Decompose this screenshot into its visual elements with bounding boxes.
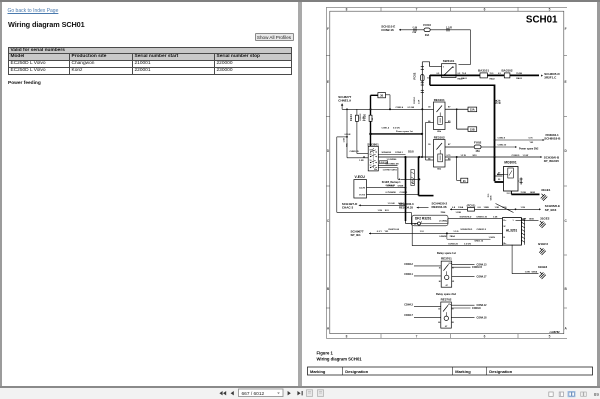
view single page icon bbox=[549, 392, 553, 396]
svg-text:30: 30 bbox=[380, 94, 384, 98]
svg-text:CON4.15: CON4.15 bbox=[472, 266, 483, 269]
wire CON2.9 arrow FD3904.1 bbox=[493, 133, 561, 144]
caption Wiring diagram SCH01 bbox=[316, 356, 362, 361]
svg-text:RE3102: RE3102 bbox=[433, 136, 444, 140]
svg-text:GN08: GN08 bbox=[397, 185, 403, 187]
wire to SW3801 pin30 bbox=[347, 158, 368, 162]
zone row letters left bbox=[326, 27, 330, 331]
off-sheet reference SCH49/7-D CHAC-3 bbox=[341, 202, 357, 210]
svg-text:D: D bbox=[564, 149, 567, 153]
FC02 column connector ticks bbox=[420, 67, 423, 93]
window left border bbox=[0, 2, 2, 386]
svg-text:CON4.17: CON4.17 bbox=[476, 275, 487, 278]
svg-text:15B: 15B bbox=[469, 127, 474, 131]
toolbar previous page button bbox=[231, 391, 234, 395]
svg-text:0.5B/W: 0.5B/W bbox=[439, 236, 447, 238]
ground 3/1GF3 bbox=[537, 242, 547, 255]
svg-text:B+: B+ bbox=[503, 243, 507, 245]
RE3701 right wires CON4.13 CON4.15 CON4.17 bbox=[451, 263, 486, 278]
arrow SCH65 backup bbox=[381, 178, 420, 187]
arrow SP_IE1 bbox=[369, 232, 371, 234]
RE3702 right wires bbox=[451, 304, 487, 319]
svg-text:C.28: C.28 bbox=[412, 27, 417, 29]
svg-text:Power spare 1st: Power spare 1st bbox=[396, 130, 413, 133]
cable labels bbox=[461, 73, 522, 80]
plot stamp cs98782 bbox=[549, 330, 560, 334]
svg-text:SCH9678-D: SCH9678-D bbox=[459, 216, 471, 218]
splitter bar bbox=[298, 2, 302, 386]
arrow stub SCH6277 bbox=[340, 103, 342, 109]
fuse FC03 bbox=[423, 23, 431, 37]
wire FC01 row bbox=[450, 206, 468, 209]
svg-text:30A: 30A bbox=[424, 34, 429, 37]
svg-text:CHW31.5: CHW31.5 bbox=[476, 229, 486, 231]
svg-text:CON5.1: CON5.1 bbox=[399, 192, 408, 194]
DF2 lower wire bbox=[412, 225, 502, 245]
svg-text:1.5Y/W Y-W01: 1.5Y/W Y-W01 bbox=[382, 170, 397, 172]
off-sheet reference SCH4030-2 RE2004.36 bbox=[431, 201, 447, 209]
svg-text:86: 86 bbox=[438, 281, 440, 283]
caption Figure 1 bbox=[316, 351, 333, 356]
30 box right feed wire bbox=[385, 95, 391, 111]
svg-text:S01: S01 bbox=[384, 210, 389, 212]
arrow CHAC-3 bbox=[358, 204, 360, 206]
svg-text:B: B bbox=[503, 237, 505, 239]
svg-text:0.75GN/W: 0.75GN/W bbox=[385, 192, 396, 194]
branch wire to S01 row bbox=[336, 134, 350, 213]
pane bottom divider bbox=[0, 386, 600, 388]
svg-text:CHAC-3: CHAC-3 bbox=[341, 206, 353, 210]
svg-text:CON4.7: CON4.7 bbox=[404, 314, 413, 317]
wire labels 70.5 GE06 bbox=[488, 194, 493, 201]
svg-text:1.5R: 1.5R bbox=[418, 99, 420, 104]
battery inter labels bbox=[489, 73, 501, 80]
svg-text:CON4.3: CON4.3 bbox=[404, 303, 413, 306]
svg-text:RE2004.36: RE2004.36 bbox=[431, 205, 446, 209]
svg-text:667 / 6012: 667 / 6012 bbox=[242, 391, 265, 397]
svg-text:D1/8: D1/8 bbox=[408, 150, 414, 154]
svg-text:W01: W01 bbox=[472, 155, 477, 157]
V-ECU lower wire bbox=[352, 197, 354, 199]
wire RE3101 87 to fuse 15A bbox=[445, 108, 468, 110]
bold power spare wire bbox=[369, 121, 423, 146]
svg-text:RE3701: RE3701 bbox=[440, 257, 451, 261]
view bookmark icon bbox=[559, 392, 563, 396]
svg-text:1: 1 bbox=[442, 66, 444, 68]
svg-text:Marking: Marking bbox=[310, 369, 326, 374]
svg-text:0.75: 0.75 bbox=[446, 155, 451, 157]
svg-text:1.5 GN: 1.5 GN bbox=[463, 243, 470, 245]
svg-text:RE3101: RE3101 bbox=[433, 98, 444, 102]
toolbar page number field bbox=[239, 389, 284, 397]
svg-text:FL04: FL04 bbox=[349, 114, 353, 121]
zone row letters right bbox=[563, 27, 567, 331]
ground 31GE3 bbox=[537, 265, 547, 279]
svg-text:31-1: 31-1 bbox=[506, 193, 511, 195]
svg-text:D: D bbox=[326, 149, 329, 153]
svg-text:Power spare 2N2: Power spare 2N2 bbox=[519, 148, 539, 151]
svg-text:87: 87 bbox=[451, 308, 453, 310]
window top border bbox=[0, 0, 600, 2]
V-ECU box bbox=[353, 175, 366, 198]
DF2 bold stub bbox=[404, 187, 417, 224]
svg-text:87: 87 bbox=[448, 107, 451, 109]
svg-text:1.5GN: 1.5GN bbox=[488, 237, 495, 239]
wire CHAC-3 to riser bbox=[358, 202, 406, 206]
svg-text:130B: 130B bbox=[483, 207, 489, 209]
svg-text:CON1.1: CON1.1 bbox=[414, 96, 416, 104]
AL3201 pin specks bbox=[503, 220, 514, 239]
svg-text:30: 30 bbox=[438, 267, 440, 269]
svg-text:DF2 R3201: DF2 R3201 bbox=[415, 217, 432, 221]
svg-text:1.5 S: 1.5 S bbox=[453, 231, 459, 233]
left feed wire down x346.5 bbox=[343, 109, 348, 158]
battery BA3102 bbox=[501, 69, 512, 78]
svg-text:Relay spare 1st: Relay spare 1st bbox=[436, 251, 455, 255]
svg-text:5: 5 bbox=[548, 8, 550, 12]
svg-text:CHNE1.9: CHNE1.9 bbox=[338, 98, 351, 102]
svg-text:F08: F08 bbox=[412, 32, 416, 34]
svg-text:8: 8 bbox=[345, 334, 347, 338]
svg-text:B: B bbox=[564, 287, 567, 291]
marking designation table bbox=[307, 367, 592, 375]
svg-text:SP_EK3: SP_EK3 bbox=[544, 208, 556, 212]
svg-text:7R04: 7R04 bbox=[440, 211, 446, 214]
svg-text:70.5B: 70.5B bbox=[516, 73, 522, 75]
svg-text:CHW2.29: CHW2.29 bbox=[349, 151, 359, 153]
relay spare 2nd RE3702 bbox=[436, 292, 456, 328]
svg-text:BA3101: BA3101 bbox=[477, 69, 488, 73]
svg-text:(CON5): (CON5) bbox=[439, 221, 447, 223]
svg-text:1.5 W: 1.5 W bbox=[460, 155, 465, 157]
svg-text:1.5S: 1.5S bbox=[492, 216, 497, 218]
svg-text:1.5 W: 1.5 W bbox=[522, 155, 529, 157]
svg-text:15A: 15A bbox=[469, 108, 474, 112]
MO3001 pin wire bbox=[494, 174, 502, 176]
svg-text:C: C bbox=[564, 219, 567, 223]
diagonal wire to FC01 row bbox=[495, 204, 513, 213]
svg-text:85: 85 bbox=[451, 322, 453, 324]
svg-text:CHW31.24: CHW31.24 bbox=[388, 228, 399, 231]
arrow RE2004.35 bbox=[416, 207, 428, 209]
svg-text:A: A bbox=[326, 327, 329, 331]
svg-text:CA-7B: CA-7B bbox=[358, 187, 365, 190]
svg-text:3P_WA015: 3P_WA015 bbox=[543, 159, 559, 163]
svg-text:D+: D+ bbox=[503, 220, 507, 222]
left html pane bbox=[2, 2, 298, 386]
zoom percent text bbox=[594, 392, 600, 397]
svg-text:1.5 GN: 1.5 GN bbox=[387, 203, 394, 205]
svg-text:30: 30 bbox=[428, 107, 431, 109]
svg-text:CON4.2: CON4.2 bbox=[404, 263, 413, 266]
svg-text:SCH4010: SCH4010 bbox=[381, 151, 391, 154]
wire labels above y157 row bbox=[446, 155, 477, 157]
DF2 CON5 pin specks bbox=[414, 222, 422, 226]
svg-text:3R2F1.C: 3R2F1.C bbox=[544, 76, 557, 80]
svg-text:RA02: RA02 bbox=[457, 77, 463, 80]
RE3102 pin wires bbox=[425, 159, 450, 161]
svg-text:130A: 130A bbox=[458, 206, 464, 209]
svg-text:1: 1 bbox=[512, 220, 514, 222]
relay spare 1st RE3701 bbox=[436, 251, 455, 287]
ground wire MO3001 to 31GE1 (bold) bbox=[511, 191, 539, 194]
svg-text:BA3102: BA3102 bbox=[501, 69, 512, 73]
wire from SCH110 to FC03 bbox=[412, 27, 417, 34]
svg-text:10A: 10A bbox=[427, 77, 431, 80]
svg-text:CHW31.19: CHW31.19 bbox=[476, 216, 487, 218]
wire CON2.10 power spare 2nd bbox=[494, 145, 538, 151]
relay RE3101 bbox=[428, 98, 451, 133]
alternator AL3201 bbox=[502, 218, 524, 246]
feed wire horizontal y109.8 bbox=[342, 106, 433, 110]
svg-text:(FC01): (FC01) bbox=[466, 203, 475, 207]
svg-text:CON1.4: CON1.4 bbox=[381, 127, 389, 130]
svg-text:1.30B: 1.30B bbox=[455, 212, 461, 214]
fuse FU02 bbox=[474, 140, 482, 153]
SW3101 cable labels bbox=[436, 73, 463, 80]
svg-text:CON4.8: CON4.8 bbox=[472, 307, 481, 310]
svg-text:W/F: W/F bbox=[498, 99, 501, 104]
svg-text:FC03: FC03 bbox=[423, 23, 431, 27]
RE3701 left wires CON4 bbox=[404, 263, 441, 276]
svg-text:7: 7 bbox=[415, 334, 417, 338]
svg-text:31GE2: 31GE2 bbox=[540, 216, 550, 220]
svg-text:0.5 GN: 0.5 GN bbox=[393, 128, 400, 130]
svg-text:W: W bbox=[503, 226, 505, 228]
svg-text:GE04: GE04 bbox=[531, 270, 537, 273]
svg-text:SCH8018-B: SCH8018-B bbox=[544, 137, 561, 141]
svg-text:1.5R: 1.5R bbox=[359, 160, 364, 162]
arrow to SCH30/5-D bbox=[541, 72, 560, 80]
svg-text:87: 87 bbox=[452, 267, 454, 269]
svg-text:1.5 I: 1.5 I bbox=[419, 231, 424, 233]
svg-text:1.5S: 1.5S bbox=[520, 207, 525, 209]
feed wire y157 D1/8 label bbox=[378, 150, 433, 158]
svg-text:Y03: Y03 bbox=[529, 142, 534, 144]
svg-text:SCH01: SCH01 bbox=[525, 15, 557, 26]
resistor DF2 R3201 bbox=[412, 215, 502, 226]
svg-text:A: A bbox=[564, 327, 567, 331]
svg-text:87: 87 bbox=[448, 144, 451, 146]
svg-text:cs98782: cs98782 bbox=[549, 330, 560, 334]
svg-text:Designation: Designation bbox=[345, 369, 368, 374]
svg-text:FU20: FU20 bbox=[362, 114, 366, 121]
svg-text:FC02: FC02 bbox=[412, 72, 416, 79]
svg-text:D30: D30 bbox=[502, 207, 507, 209]
ground 31GE1 bbox=[540, 188, 550, 201]
RE3702 left wires CON4 bbox=[404, 303, 441, 317]
svg-text:0.8: 0.8 bbox=[452, 207, 456, 209]
wire to 15B bbox=[456, 109, 467, 129]
svg-text:31GE3: 31GE3 bbox=[537, 265, 547, 269]
wire label 31GE2 feed bbox=[515, 219, 535, 221]
RE3102 85 wire down bbox=[424, 123, 426, 161]
ignition sense wire bbox=[369, 228, 503, 238]
wire FU02 to bold bus bbox=[481, 146, 496, 148]
view continuous facing icon bbox=[581, 392, 587, 396]
svg-text:SCH9678-D: SCH9678-D bbox=[460, 229, 472, 231]
svg-text:E: E bbox=[564, 80, 566, 84]
svg-text:CON2.9: CON2.9 bbox=[497, 138, 505, 140]
fuse 15A box bbox=[468, 107, 477, 112]
svg-text:0.5 GN: 0.5 GN bbox=[407, 107, 414, 109]
30A W/F label bbox=[495, 99, 501, 104]
svg-text:31GE1: 31GE1 bbox=[541, 188, 551, 192]
svg-text:0.8: 0.8 bbox=[477, 207, 481, 209]
zone column numbers top bbox=[345, 7, 550, 11]
V-ECU output wires bbox=[366, 185, 418, 194]
svg-text:CON2.1: CON2.1 bbox=[395, 152, 404, 154]
svg-text:GE03: GE03 bbox=[530, 192, 536, 194]
label row FC01 extra bbox=[440, 211, 461, 214]
sheet inner border bbox=[329, 11, 563, 334]
svg-text:SCH65_Backup 1: SCH65_Backup 1 bbox=[381, 182, 401, 184]
svg-text:GE06: GE06 bbox=[490, 196, 492, 201]
FL04 wire to SW3801 bbox=[349, 121, 368, 153]
svg-text:Y01: Y01 bbox=[384, 231, 389, 233]
toolbar disabled page icon 2 bbox=[318, 390, 324, 397]
off-sheet reference SCH6277 CHNE1.9 bbox=[338, 95, 351, 103]
wire down to SW3101 bbox=[458, 30, 470, 65]
toolbar next page button bbox=[288, 391, 291, 395]
svg-text:CON4.18: CON4.18 bbox=[476, 316, 487, 319]
RE3101 pin wires bbox=[425, 122, 450, 124]
svg-text:15/4: 15/4 bbox=[369, 149, 372, 152]
svg-text:1.5 R/R06: 1.5 R/R06 bbox=[386, 159, 397, 161]
wire FC03 to corner bbox=[399, 26, 471, 31]
svg-text:AL3201: AL3201 bbox=[505, 229, 517, 233]
battery disconnect switch SW3101 bbox=[441, 59, 456, 78]
fuse 15B box bbox=[468, 127, 477, 132]
svg-text:8: 8 bbox=[345, 8, 347, 12]
svg-text:V-ECU: V-ECU bbox=[354, 175, 365, 179]
terminal 30 box bbox=[377, 93, 385, 98]
off-sheet reference SCH4030-3 RE2004.35 bbox=[399, 202, 414, 210]
arrow RE2004.36 bbox=[450, 208, 452, 210]
svg-text:Figure 1: Figure 1 bbox=[316, 351, 333, 356]
svg-text:Wiring diagram SCH01: Wiring diagram SCH01 bbox=[316, 356, 362, 361]
wire FC01 right + arrow SCH65/8-E bbox=[474, 204, 559, 212]
off-sheet reference SCH110 E CON2.16 bbox=[381, 25, 395, 33]
svg-text:70.5B: 70.5B bbox=[520, 192, 526, 194]
ground 31GE2 bbox=[530, 216, 549, 228]
svg-text:7: 7 bbox=[415, 8, 417, 12]
distribution bus box left edge bbox=[428, 75, 430, 85]
svg-text:0.3 Y: 0.3 Y bbox=[376, 231, 382, 233]
svg-text:30: 30 bbox=[498, 179, 501, 181]
SW3801 output wires bbox=[378, 151, 405, 179]
right pdf pane bbox=[302, 2, 598, 386]
window right border bbox=[597, 2, 600, 386]
starter motor MO3001 bbox=[503, 161, 522, 196]
svg-text:E: E bbox=[326, 80, 328, 84]
wire MO3001 50 bbox=[497, 172, 504, 174]
svg-text:Relay spare 2nd: Relay spare 2nd bbox=[436, 292, 456, 296]
tap from SW3101 to fuse column bbox=[422, 62, 441, 157]
bold riser wires bbox=[405, 157, 433, 222]
fuse FC01 bbox=[466, 203, 475, 211]
svg-text:RA03: RA03 bbox=[516, 77, 522, 80]
svg-text:0.5GN: 0.5GN bbox=[344, 134, 350, 136]
bottom toolbar bbox=[0, 388, 600, 399]
distribution box right bold wire bbox=[493, 85, 495, 158]
svg-text:6: 6 bbox=[483, 8, 485, 12]
drawing number SCH01 bbox=[525, 15, 557, 26]
svg-text:1.5R: 1.5R bbox=[343, 138, 345, 143]
svg-text:85b: 85b bbox=[437, 131, 441, 133]
svg-text:1.5S: 1.5S bbox=[377, 210, 382, 212]
svg-text:CON2.5: CON2.5 bbox=[511, 155, 520, 157]
wire RE3102 87 right bbox=[445, 146, 474, 148]
SW3801 internal labels bbox=[369, 149, 376, 171]
toolbar first page button bbox=[219, 391, 226, 395]
svg-text:86: 86 bbox=[438, 322, 440, 324]
svg-text:1.5W: 1.5W bbox=[524, 271, 530, 273]
fuse FU20 bbox=[362, 114, 373, 122]
svg-text:30: 30 bbox=[369, 154, 371, 156]
svg-text:CON4.1: CON4.1 bbox=[404, 273, 413, 276]
toolbar last page button bbox=[297, 391, 302, 395]
main battery cable (bold) bbox=[429, 74, 538, 76]
svg-text:19: 19 bbox=[369, 160, 371, 162]
svg-text:3/1GF3: 3/1GF3 bbox=[537, 242, 547, 246]
svg-text:B: B bbox=[326, 287, 329, 291]
svg-text:FU02: FU02 bbox=[474, 140, 482, 144]
svg-text:(2): (2) bbox=[414, 224, 417, 226]
svg-text:7B04: 7B04 bbox=[449, 235, 455, 238]
svg-text:F: F bbox=[564, 27, 566, 31]
svg-text:SP_IE1: SP_IE1 bbox=[350, 233, 361, 237]
alternator ground wire to 31GE3 bbox=[512, 245, 538, 274]
arrow to SCH110 bbox=[399, 29, 401, 31]
svg-text:30: 30 bbox=[438, 308, 440, 310]
svg-text:CON2.4: CON2.4 bbox=[395, 106, 403, 109]
svg-text:CON2.16: CON2.16 bbox=[381, 28, 394, 32]
wire to 21 box bbox=[456, 157, 460, 181]
svg-text:85b: 85b bbox=[437, 169, 441, 171]
distribution bus box bottom bbox=[429, 84, 494, 86]
zone column numbers bottom bbox=[345, 334, 550, 339]
svg-text:2: 2 bbox=[421, 222, 422, 224]
S01 wire bbox=[336, 210, 411, 225]
key switch SW3801 bbox=[362, 143, 378, 171]
svg-text:50a: 50a bbox=[374, 169, 377, 171]
svg-text:RA02: RA02 bbox=[489, 77, 495, 80]
view two page icon active bbox=[568, 391, 575, 397]
svg-text:Designation: Designation bbox=[489, 369, 512, 374]
svg-text:17: 17 bbox=[369, 165, 371, 167]
off-sheet reference SCH9677 SP_IE1 bbox=[350, 229, 363, 237]
svg-text:RE3702: RE3702 bbox=[440, 297, 451, 301]
bold wire to MO3001 bbox=[494, 157, 503, 182]
svg-text:CON3C/4: CON3C/4 bbox=[448, 242, 458, 245]
svg-text:GN01.12: GN01.12 bbox=[474, 241, 484, 243]
svg-text:GN04: GN04 bbox=[398, 202, 404, 205]
wire to RE3101 pin30 bbox=[421, 108, 423, 110]
svg-text:C: C bbox=[326, 219, 329, 223]
bold wire 30 box to FU20 column bbox=[370, 95, 377, 115]
relay RE3102 bbox=[428, 136, 451, 171]
svg-text:VCT B: VCT B bbox=[359, 194, 366, 196]
svg-text:89: 89 bbox=[594, 392, 600, 397]
svg-text:SW3101: SW3101 bbox=[442, 59, 454, 63]
toolbar disabled page icon 1 bbox=[307, 390, 313, 397]
D1/1 connector bbox=[410, 170, 414, 186]
connector pins at 413 bbox=[414, 28, 416, 31]
svg-text:5: 5 bbox=[548, 334, 550, 338]
svg-text:-87: -87 bbox=[445, 285, 448, 287]
svg-text:21: 21 bbox=[462, 179, 465, 183]
